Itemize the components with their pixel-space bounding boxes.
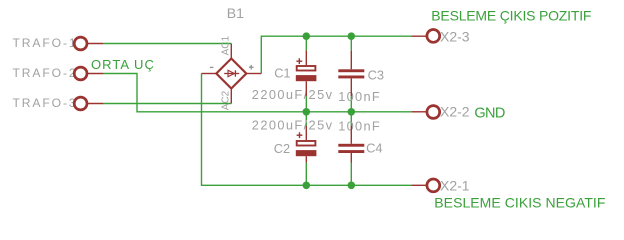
- wire GND bus to C2: [305, 112, 307, 126]
- wire C1 to GND bus: [305, 96, 307, 112]
- capacitor C1 bottom plate: [296, 75, 317, 81]
- pin TRAFO-2: [87, 73, 103, 75]
- capacitor C3 pin 2: [350, 78, 352, 96]
- svg-text:C2: C2: [274, 141, 290, 156]
- capacitor C2 plus mark: [297, 132, 303, 138]
- connector pad X2-2: [427, 106, 440, 119]
- wire top bus to C1: [305, 36, 307, 50]
- capacitor C4 pin 2: [350, 153, 352, 163]
- wire top bus to C3: [350, 36, 352, 50]
- connector pad TRAFO-1: [74, 37, 87, 50]
- svg-text:100nF: 100nF: [338, 89, 381, 104]
- wire ORTA UC: TRAFO-2 to GND bus: [103, 74, 411, 112]
- svg-text:2200uF/25v: 2200uF/25v: [252, 87, 334, 102]
- connector pad X2-3: [427, 30, 440, 43]
- capacitor C2 top plate: [297, 141, 316, 146]
- svg-text:C1: C1: [274, 65, 290, 80]
- junction GND bus / C3 C4: [348, 108, 356, 116]
- pin label minus: [210, 66, 214, 68]
- wire TRAFO-3 to B1 AC2: [103, 103, 231, 105]
- wire B1 plus to top bus: [261, 36, 411, 73]
- capacitor C1 pin 2: [305, 81, 307, 96]
- bridge rectifier B1 pin minus: [202, 73, 217, 75]
- svg-text:AC2: AC2: [221, 90, 232, 110]
- svg-text:X2-3: X2-3: [440, 28, 470, 44]
- wire C4 to bottom bus: [350, 163, 352, 186]
- svg-text:ORTA UÇ: ORTA UÇ: [91, 57, 155, 72]
- bridge rectifier B1 body: [216, 59, 246, 89]
- junction GND bus / C1 C2: [303, 108, 311, 116]
- capacitor C4 bottom plate: [338, 150, 364, 153]
- svg-text:B1: B1: [227, 5, 244, 21]
- pin X2-1: [411, 184, 427, 186]
- svg-text:TRAFO-3: TRAFO-3: [13, 96, 78, 110]
- svg-text:100nF: 100nF: [338, 119, 381, 134]
- svg-text:X2-2: X2-2: [440, 103, 470, 119]
- capacitor C1 top plate: [297, 66, 316, 71]
- pin label plus: [249, 65, 254, 70]
- capacitor C1 plus mark: [296, 58, 302, 64]
- pin TRAFO-3: [87, 103, 103, 105]
- bridge rectifier B1 pin AC1: [230, 44, 232, 59]
- capacitor C3 top plate: [338, 69, 364, 72]
- wire C3 to GND bus: [350, 96, 352, 112]
- svg-text:C3: C3: [368, 67, 384, 82]
- svg-text:BESLEME ÇIKIS POZITIF: BESLEME ÇIKIS POZITIF: [431, 8, 591, 24]
- capacitor C2 bottom plate: [296, 150, 317, 156]
- svg-text:2200uF/25v: 2200uF/25v: [252, 117, 334, 132]
- capacitor C2 pin 2: [305, 156, 307, 162]
- junction bottom bus / C4: [348, 182, 356, 190]
- pin X2-3: [411, 35, 427, 37]
- capacitor C4 pin 1: [350, 126, 352, 144]
- svg-text:TRAFO-1: TRAFO-1: [13, 36, 78, 50]
- connector pad TRAFO-2: [74, 67, 87, 80]
- svg-text:AC1: AC1: [221, 36, 232, 56]
- connector pad X2-1: [427, 179, 440, 192]
- wire B1 minus to bottom bus: [202, 74, 412, 186]
- wire GND bus to C4: [350, 112, 352, 126]
- wire TRAFO-1 to B1 AC1: [103, 43, 231, 45]
- connector pad TRAFO-3: [74, 97, 87, 110]
- pin TRAFO-1: [87, 43, 103, 45]
- junction top bus / C3: [348, 32, 356, 40]
- bridge rectifier B1 diode symbol: [224, 70, 239, 76]
- junction bottom bus / C2: [303, 182, 311, 190]
- pin X2-2: [411, 111, 427, 113]
- capacitor C4 top plate: [338, 144, 364, 147]
- junction top bus / C1: [303, 32, 311, 40]
- capacitor C1 pin 1: [305, 50, 307, 65]
- svg-text:TRAFO-2: TRAFO-2: [13, 66, 78, 80]
- capacitor C2 pin 1: [305, 126, 307, 140]
- bridge rectifier B1 pin AC2: [230, 88, 232, 103]
- svg-text:BESLEME CIKIS NEGATIF: BESLEME CIKIS NEGATIF: [434, 194, 605, 210]
- wire C2 to bottom bus: [305, 163, 307, 186]
- capacitor C3 bottom plate: [338, 76, 364, 79]
- svg-text:GND: GND: [474, 106, 504, 122]
- bridge rectifier B1 pin plus: [246, 73, 261, 75]
- svg-text:X2-1: X2-1: [440, 177, 470, 193]
- svg-text:C4: C4: [366, 140, 382, 155]
- capacitor C3 pin 1: [350, 51, 352, 70]
